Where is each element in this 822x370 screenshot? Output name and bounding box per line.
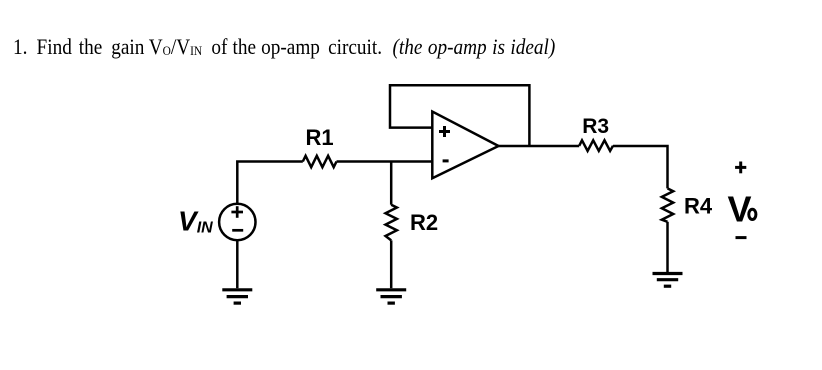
- svg-text:VIN: VIN: [178, 205, 213, 236]
- resistor R4: [662, 188, 673, 221]
- resistor R2: [386, 205, 397, 241]
- op-amp minus (inverting) pin mark: [443, 159, 449, 162]
- svg-text:R4: R4: [684, 193, 713, 218]
- ground (below VIN): [222, 290, 252, 303]
- ground (below R2): [376, 290, 406, 303]
- title text: [13, 34, 555, 60]
- wire: feedback loop (output to non-inverting input): [390, 85, 529, 146]
- svg-text:R3: R3: [582, 115, 609, 138]
- wire: R3 to R4 (corner): [613, 146, 668, 188]
- wire: R2 to ground: [390, 240, 393, 288]
- Vo subscript O: [749, 209, 756, 219]
- VIN minus mark: [232, 229, 243, 232]
- wire: junction node of R1/R2/inverting input, down to R2: [390, 162, 393, 205]
- op-amp U1: [432, 112, 498, 179]
- svg-text:R2: R2: [410, 210, 438, 235]
- svg-text:V: V: [728, 188, 752, 229]
- resistor R1: [303, 156, 337, 167]
- resistor R3: [579, 140, 613, 151]
- wire: op-amp output to R3: [499, 145, 580, 148]
- wire: VIN source to ground: [236, 240, 239, 288]
- Vo plus polarity mark: [735, 162, 746, 174]
- wire: R4 to ground: [666, 222, 669, 272]
- Vo minus polarity mark: [736, 236, 747, 239]
- svg-text:R1: R1: [306, 125, 334, 150]
- wire: Vin source up to R1 (vertical + horizontal): [237, 162, 302, 204]
- ground (below R4): [653, 274, 683, 287]
- wire: R1 to inverting input (through R2 node): [337, 160, 433, 163]
- voltage source VIN: [219, 204, 255, 240]
- op-amp plus (non-inverting) pin mark: [439, 126, 450, 137]
- VIN plus mark: [231, 206, 243, 218]
